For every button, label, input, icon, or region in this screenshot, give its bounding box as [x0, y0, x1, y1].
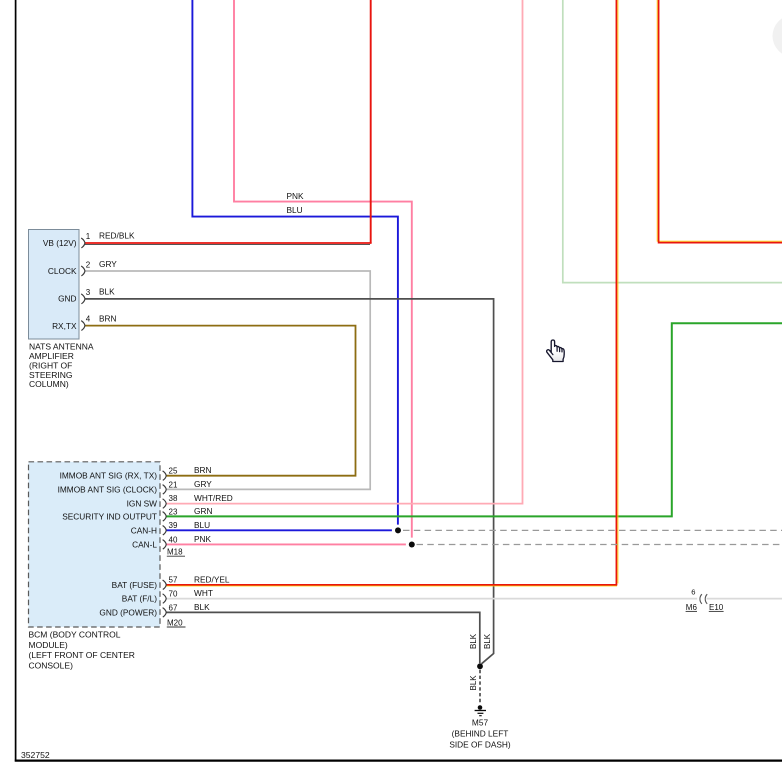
svg-text:GND (POWER): GND (POWER)	[99, 607, 157, 617]
svg-text:6: 6	[691, 588, 695, 597]
svg-text:3: 3	[86, 288, 91, 297]
svg-text:(BEHIND LEFT: (BEHIND LEFT	[452, 729, 509, 739]
svg-text:RED/YEL: RED/YEL	[194, 574, 230, 584]
wire dashed CAN-H continuation	[403, 529, 782, 531]
svg-text:M57: M57	[472, 718, 489, 728]
NATS caption	[29, 342, 94, 390]
svg-text:VB (12V): VB (12V)	[43, 238, 77, 248]
scroll button circle top right	[773, 15, 782, 57]
wire RED/YEL top right yellow stripe	[657, 0, 782, 241]
BCM caption	[29, 629, 135, 670]
wire WHT BAT(F/L) right of connector	[707, 598, 782, 600]
wire BLU CAN-H (top run)	[192, 0, 398, 525]
svg-text:GRN: GRN	[194, 506, 212, 516]
svg-text:PNK: PNK	[287, 191, 305, 201]
svg-text:BRN: BRN	[194, 465, 212, 475]
svg-text:38: 38	[169, 494, 178, 503]
svg-text:39: 39	[169, 521, 178, 530]
wire RED/YEL top right	[659, 0, 782, 243]
svg-text:BRN: BRN	[99, 313, 117, 323]
wire BLK GND(POWER)	[166, 612, 480, 663]
connector M6/E10 on WHT wire	[700, 594, 707, 604]
svg-text:M18: M18	[167, 548, 183, 557]
cursor hand pointer	[547, 340, 565, 362]
wire BLU CAN-H from BCM	[166, 529, 392, 531]
connector label M18	[167, 548, 185, 557]
svg-text:CLOCK: CLOCK	[48, 266, 77, 276]
NATS pin 2 bracket	[81, 266, 85, 276]
wire RED/YEL BAT(FUSE) horizontal	[166, 584, 617, 586]
svg-text:IGN SW: IGN SW	[127, 498, 158, 508]
svg-text:BLU: BLU	[287, 205, 303, 215]
svg-text:WHT/RED: WHT/RED	[194, 493, 233, 503]
svg-text:CAN-L: CAN-L	[132, 539, 157, 549]
BCM pin 67 bracket	[163, 608, 167, 618]
wire RED/YEL BAT(FUSE) yellow stripe horizontal	[166, 585, 617, 587]
svg-text:4: 4	[86, 315, 91, 324]
wire GRY NATS pin2 to BCM pin21	[85, 271, 370, 489]
BCM pin 21 bracket	[163, 485, 167, 495]
wire WHT BAT(F/L) left of connector	[166, 598, 697, 600]
svg-text:BLK: BLK	[194, 602, 210, 612]
svg-text:M20: M20	[167, 618, 183, 627]
wire RED/BLK black stripe horizontal	[85, 244, 370, 246]
svg-text:GND: GND	[58, 294, 76, 304]
wire RED/YEL BAT(FUSE) vertical	[615, 0, 617, 585]
NATS antenna amplifier box	[29, 230, 80, 340]
svg-text:IMMOB ANT SIG (RX, TX): IMMOB ANT SIG (RX, TX)	[60, 471, 158, 481]
svg-text:21: 21	[169, 480, 178, 489]
page left border	[15, 0, 17, 762]
node CAN-H junction	[395, 527, 401, 533]
wire RED/YEL BAT(FUSE) yellow stripe vertical	[617, 0, 619, 584]
svg-text:BLK: BLK	[483, 633, 492, 649]
ground symbol M57	[475, 705, 486, 716]
BCM pin 39 bracket	[163, 526, 167, 536]
wire BLK NATS pin3	[85, 299, 494, 664]
svg-text:BAT (FUSE): BAT (FUSE)	[112, 580, 158, 590]
svg-text:SECURITY IND OUTPUT: SECURITY IND OUTPUT	[62, 511, 157, 521]
wire pale green top right	[563, 0, 782, 283]
BCM pin 70 bracket	[163, 594, 167, 604]
svg-text:WHT: WHT	[194, 588, 213, 598]
wire GRN BCM pin23	[166, 323, 782, 516]
svg-text:67: 67	[169, 603, 178, 612]
svg-text:E10: E10	[709, 603, 724, 612]
svg-text:CAN-H: CAN-H	[131, 525, 157, 535]
svg-text:COLUMN): COLUMN)	[29, 379, 69, 389]
wire RED/BLK vertical	[370, 0, 372, 243]
svg-text:BAT (F/L): BAT (F/L)	[122, 594, 157, 604]
svg-text:M6: M6	[686, 603, 698, 612]
svg-text:57: 57	[169, 576, 178, 585]
BCM body control module box	[29, 462, 161, 627]
svg-text:BLU: BLU	[194, 520, 210, 530]
BCM pin 25 bracket	[163, 471, 167, 481]
svg-text:BCM (BODY CONTROL: BCM (BODY CONTROL	[29, 629, 121, 639]
svg-text:352752: 352752	[21, 750, 50, 760]
wire RED/BLK horizontal	[85, 242, 372, 244]
NATS pin 4 bracket	[81, 321, 85, 331]
svg-text:IMMOB ANT SIG (CLOCK): IMMOB ANT SIG (CLOCK)	[58, 484, 158, 494]
label E10	[709, 603, 724, 612]
label M6	[686, 603, 698, 612]
svg-text:(LEFT FRONT OF CENTER: (LEFT FRONT OF CENTER	[29, 650, 135, 660]
wire PNK CAN-L from BCM	[166, 543, 406, 545]
svg-text:2: 2	[86, 260, 91, 269]
NATS pin 3 bracket	[81, 294, 85, 304]
svg-text:BLK: BLK	[469, 633, 478, 649]
svg-text:40: 40	[169, 535, 178, 544]
svg-text:MODULE): MODULE)	[29, 640, 68, 650]
BCM pin 57 bracket	[163, 580, 167, 590]
wire BRN NATS pin4 to BCM pin25	[85, 326, 356, 476]
svg-text:BLK: BLK	[469, 675, 478, 691]
wire PNK CAN-L (top run)	[234, 0, 412, 538]
BCM pin 40 bracket	[163, 540, 167, 550]
svg-text:70: 70	[169, 590, 178, 599]
svg-text:CONSOLE): CONSOLE)	[29, 661, 74, 671]
svg-text:GRY: GRY	[99, 259, 117, 269]
label M57 ground	[449, 718, 511, 750]
svg-text:SIDE OF DASH): SIDE OF DASH)	[449, 740, 511, 750]
BCM pin 38 bracket	[163, 499, 167, 509]
svg-text:GRY: GRY	[194, 479, 212, 489]
NATS pin 1 bracket	[81, 238, 85, 248]
svg-text:1: 1	[86, 232, 91, 241]
svg-text:25: 25	[169, 467, 178, 476]
BCM pin 23 bracket	[163, 512, 167, 521]
svg-text:BLK: BLK	[99, 287, 115, 297]
svg-text:RX,TX: RX,TX	[52, 321, 77, 331]
connector label M20	[167, 618, 186, 627]
svg-text:RED/BLK: RED/BLK	[99, 231, 135, 241]
svg-text:23: 23	[169, 507, 178, 516]
node CAN-L junction	[409, 542, 415, 548]
page bottom border	[15, 759, 782, 761]
wire WHT/RED BCM pin38	[166, 0, 523, 504]
svg-text:PNK: PNK	[194, 534, 212, 544]
wire dashed BLK to ground	[479, 670, 481, 703]
node BLK ground junction	[477, 663, 483, 669]
wire dashed CAN-L continuation	[417, 544, 782, 546]
